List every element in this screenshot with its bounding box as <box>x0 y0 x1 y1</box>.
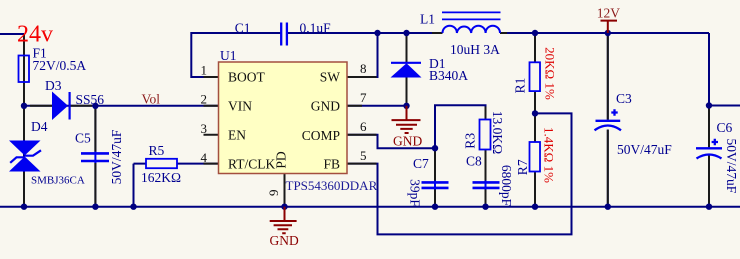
svg-text:C6: C6 <box>717 120 733 135</box>
svg-text:39pF: 39pF <box>408 179 423 207</box>
svg-text:5: 5 <box>360 148 367 163</box>
svg-text:50V/47uF: 50V/47uF <box>724 139 739 194</box>
svg-text:Vol: Vol <box>142 92 161 107</box>
svg-text:C7: C7 <box>413 156 429 171</box>
svg-text:U1: U1 <box>220 48 237 63</box>
svg-text:GND: GND <box>311 99 340 114</box>
svg-text:4: 4 <box>201 150 208 165</box>
svg-text:EN: EN <box>228 127 246 142</box>
svg-text:SMBJ36CA: SMBJ36CA <box>31 175 85 187</box>
svg-text:FB: FB <box>323 156 340 171</box>
svg-text:R1: R1 <box>513 78 528 94</box>
svg-text:RT/CLK: RT/CLK <box>228 156 275 171</box>
svg-text:C1: C1 <box>235 20 251 35</box>
svg-text:2: 2 <box>201 91 208 106</box>
svg-text:BOOT: BOOT <box>228 70 266 85</box>
svg-text:1.4KΩ 1%: 1.4KΩ 1% <box>542 127 557 183</box>
svg-text:R5: R5 <box>149 143 165 158</box>
svg-text:C3: C3 <box>616 91 632 106</box>
svg-text:GND: GND <box>393 133 422 148</box>
svg-text:50V/47uF: 50V/47uF <box>109 129 124 184</box>
svg-text:PD: PD <box>274 151 289 169</box>
svg-text:50V/47uF: 50V/47uF <box>617 142 672 157</box>
svg-text:162KΩ: 162KΩ <box>141 170 181 185</box>
svg-text:0.1uF: 0.1uF <box>300 20 332 35</box>
svg-text:SS56: SS56 <box>76 92 105 107</box>
svg-text:TPS54360DDAR: TPS54360DDAR <box>286 178 378 193</box>
svg-text:R3: R3 <box>463 133 478 149</box>
svg-text:6800pF: 6800pF <box>499 165 514 207</box>
svg-text:3: 3 <box>201 121 208 136</box>
svg-text:R7: R7 <box>515 159 530 175</box>
svg-text:10uH 3A: 10uH 3A <box>450 42 500 57</box>
svg-text:SW: SW <box>320 70 341 85</box>
svg-text:L1: L1 <box>420 12 435 27</box>
svg-text:24v: 24v <box>17 21 53 47</box>
svg-text:7: 7 <box>360 90 367 105</box>
svg-text:C8: C8 <box>466 153 482 168</box>
svg-text:6: 6 <box>360 119 367 134</box>
svg-text:72V/0.5A: 72V/0.5A <box>33 58 87 73</box>
svg-text:C5: C5 <box>75 131 91 146</box>
svg-text:12V: 12V <box>597 6 621 21</box>
svg-text:VIN: VIN <box>228 99 252 114</box>
svg-text:1: 1 <box>201 62 208 77</box>
svg-text:B340A: B340A <box>429 68 468 83</box>
svg-text:13.0KΩ: 13.0KΩ <box>490 111 505 154</box>
svg-text:D4: D4 <box>31 119 48 134</box>
svg-text:GND: GND <box>270 233 299 248</box>
svg-text:COMP: COMP <box>302 128 340 143</box>
svg-text:20KΩ 1%: 20KΩ 1% <box>543 47 558 100</box>
svg-text:9: 9 <box>266 190 281 197</box>
svg-text:8: 8 <box>360 61 367 76</box>
svg-text:D3: D3 <box>45 78 62 93</box>
